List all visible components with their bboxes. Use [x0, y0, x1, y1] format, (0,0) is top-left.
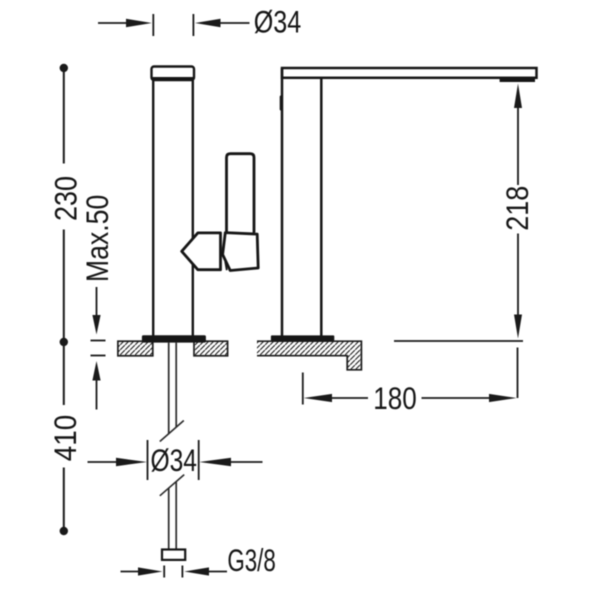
- left dimension chain: upper wire segment: [63, 70, 65, 164]
- left dimension chain: bottom dot: [60, 527, 68, 535]
- Max.50 upper extension tick: [91, 340, 106, 342]
- left faucet top cap: [152, 67, 195, 81]
- G3/8 dimension: left bar: [163, 566, 165, 578]
- left dimension chain: middle dot: [60, 338, 68, 346]
- handle lever lower part (tilted): [223, 233, 259, 271]
- right view spout rectangle: [282, 68, 537, 78]
- top dimension Ø34: right arrow: [195, 19, 250, 27]
- svg-text:Max.50: Max.50: [79, 195, 115, 283]
- Max.50 up arrowhead: [92, 361, 100, 381]
- 218 dimension: upper stem: [517, 107, 519, 185]
- svg-text:G3/8: G3/8: [227, 542, 276, 578]
- handle notch line: [225, 262, 227, 271]
- top dimension Ø34: left arrow: [98, 19, 152, 27]
- left countertop hatched block (left of hole): [118, 341, 153, 356]
- handle pivot cap (pentagon): [182, 233, 221, 270]
- Max.50 leader line lower: [96, 380, 98, 410]
- rod break mark upper: [160, 421, 184, 442]
- svg-text:410: 410: [47, 415, 83, 462]
- bottom dimension Ø34: left arrow: [88, 458, 148, 466]
- right countertop outline: [257, 341, 361, 370]
- svg-text:218: 218: [499, 186, 535, 231]
- top dimension Ø34: right extension tick: [192, 14, 194, 36]
- threaded rod left edge (upper segment): [168, 343, 170, 434]
- Max.50 lower extension tick: [91, 355, 106, 357]
- svg-text:Ø34: Ø34: [254, 4, 302, 40]
- Max.50 down arrowhead: [92, 315, 100, 335]
- right countertop hatched slab: [257, 341, 361, 370]
- handle lever upper part: [227, 154, 255, 233]
- left dimension chain: middle wire segment: [63, 230, 65, 339]
- 180 dimension: right extension line: [517, 348, 519, 399]
- 218 dimension: lower stem: [517, 234, 519, 317]
- left dimension chain: bottom wire segment: [63, 468, 65, 528]
- left faucet body left edge: [152, 81, 154, 336]
- bottom dimension Ø34: right arrow: [199, 458, 262, 466]
- 218 dimension: down arrowhead: [514, 315, 522, 339]
- right view column inner edge: [320, 78, 323, 336]
- threaded rod left edge (lower segment): [168, 488, 170, 550]
- G3/8 dimension: left arrow: [121, 567, 163, 575]
- 218 extension line (counter level): [394, 340, 523, 342]
- left dimension chain: lower wire segment: [63, 346, 65, 405]
- left faucet base plate: [142, 335, 206, 342]
- left countertop hatched block (right of hole): [194, 341, 228, 356]
- left faucet body right edge: [192, 81, 194, 336]
- threaded rod right edge (lower segment): [175, 482, 177, 550]
- bottom dimension Ø34: right extension bar: [198, 440, 200, 480]
- Max.50 leader line upper: [96, 287, 98, 316]
- column seam bulge: [280, 97, 283, 109]
- G3/8 dimension: right bar: [181, 566, 183, 578]
- rod break mark lower: [160, 475, 184, 496]
- right faucet base plate: [271, 335, 334, 341]
- bottom dimension Ø34: left extension bar: [147, 440, 149, 480]
- right view column left edge: [281, 68, 284, 336]
- svg-text:180: 180: [373, 380, 417, 416]
- 180 dimension: left extension line: [302, 373, 304, 405]
- 218 dimension: up arrowhead: [514, 84, 522, 109]
- top dimension Ø34: left extension tick: [152, 14, 154, 36]
- left dimension chain: top dot: [60, 64, 68, 72]
- 180 dimension: right stem + arrow: [422, 394, 517, 402]
- svg-text:Ø34: Ø34: [150, 442, 197, 478]
- aerator bar under spout tip: [500, 78, 535, 82]
- 180 dimension: left arrow: [304, 394, 368, 402]
- mounting nut: [162, 550, 185, 560]
- G3/8 dimension: right arrow: [184, 567, 227, 575]
- threaded rod right edge (upper segment): [175, 343, 177, 428]
